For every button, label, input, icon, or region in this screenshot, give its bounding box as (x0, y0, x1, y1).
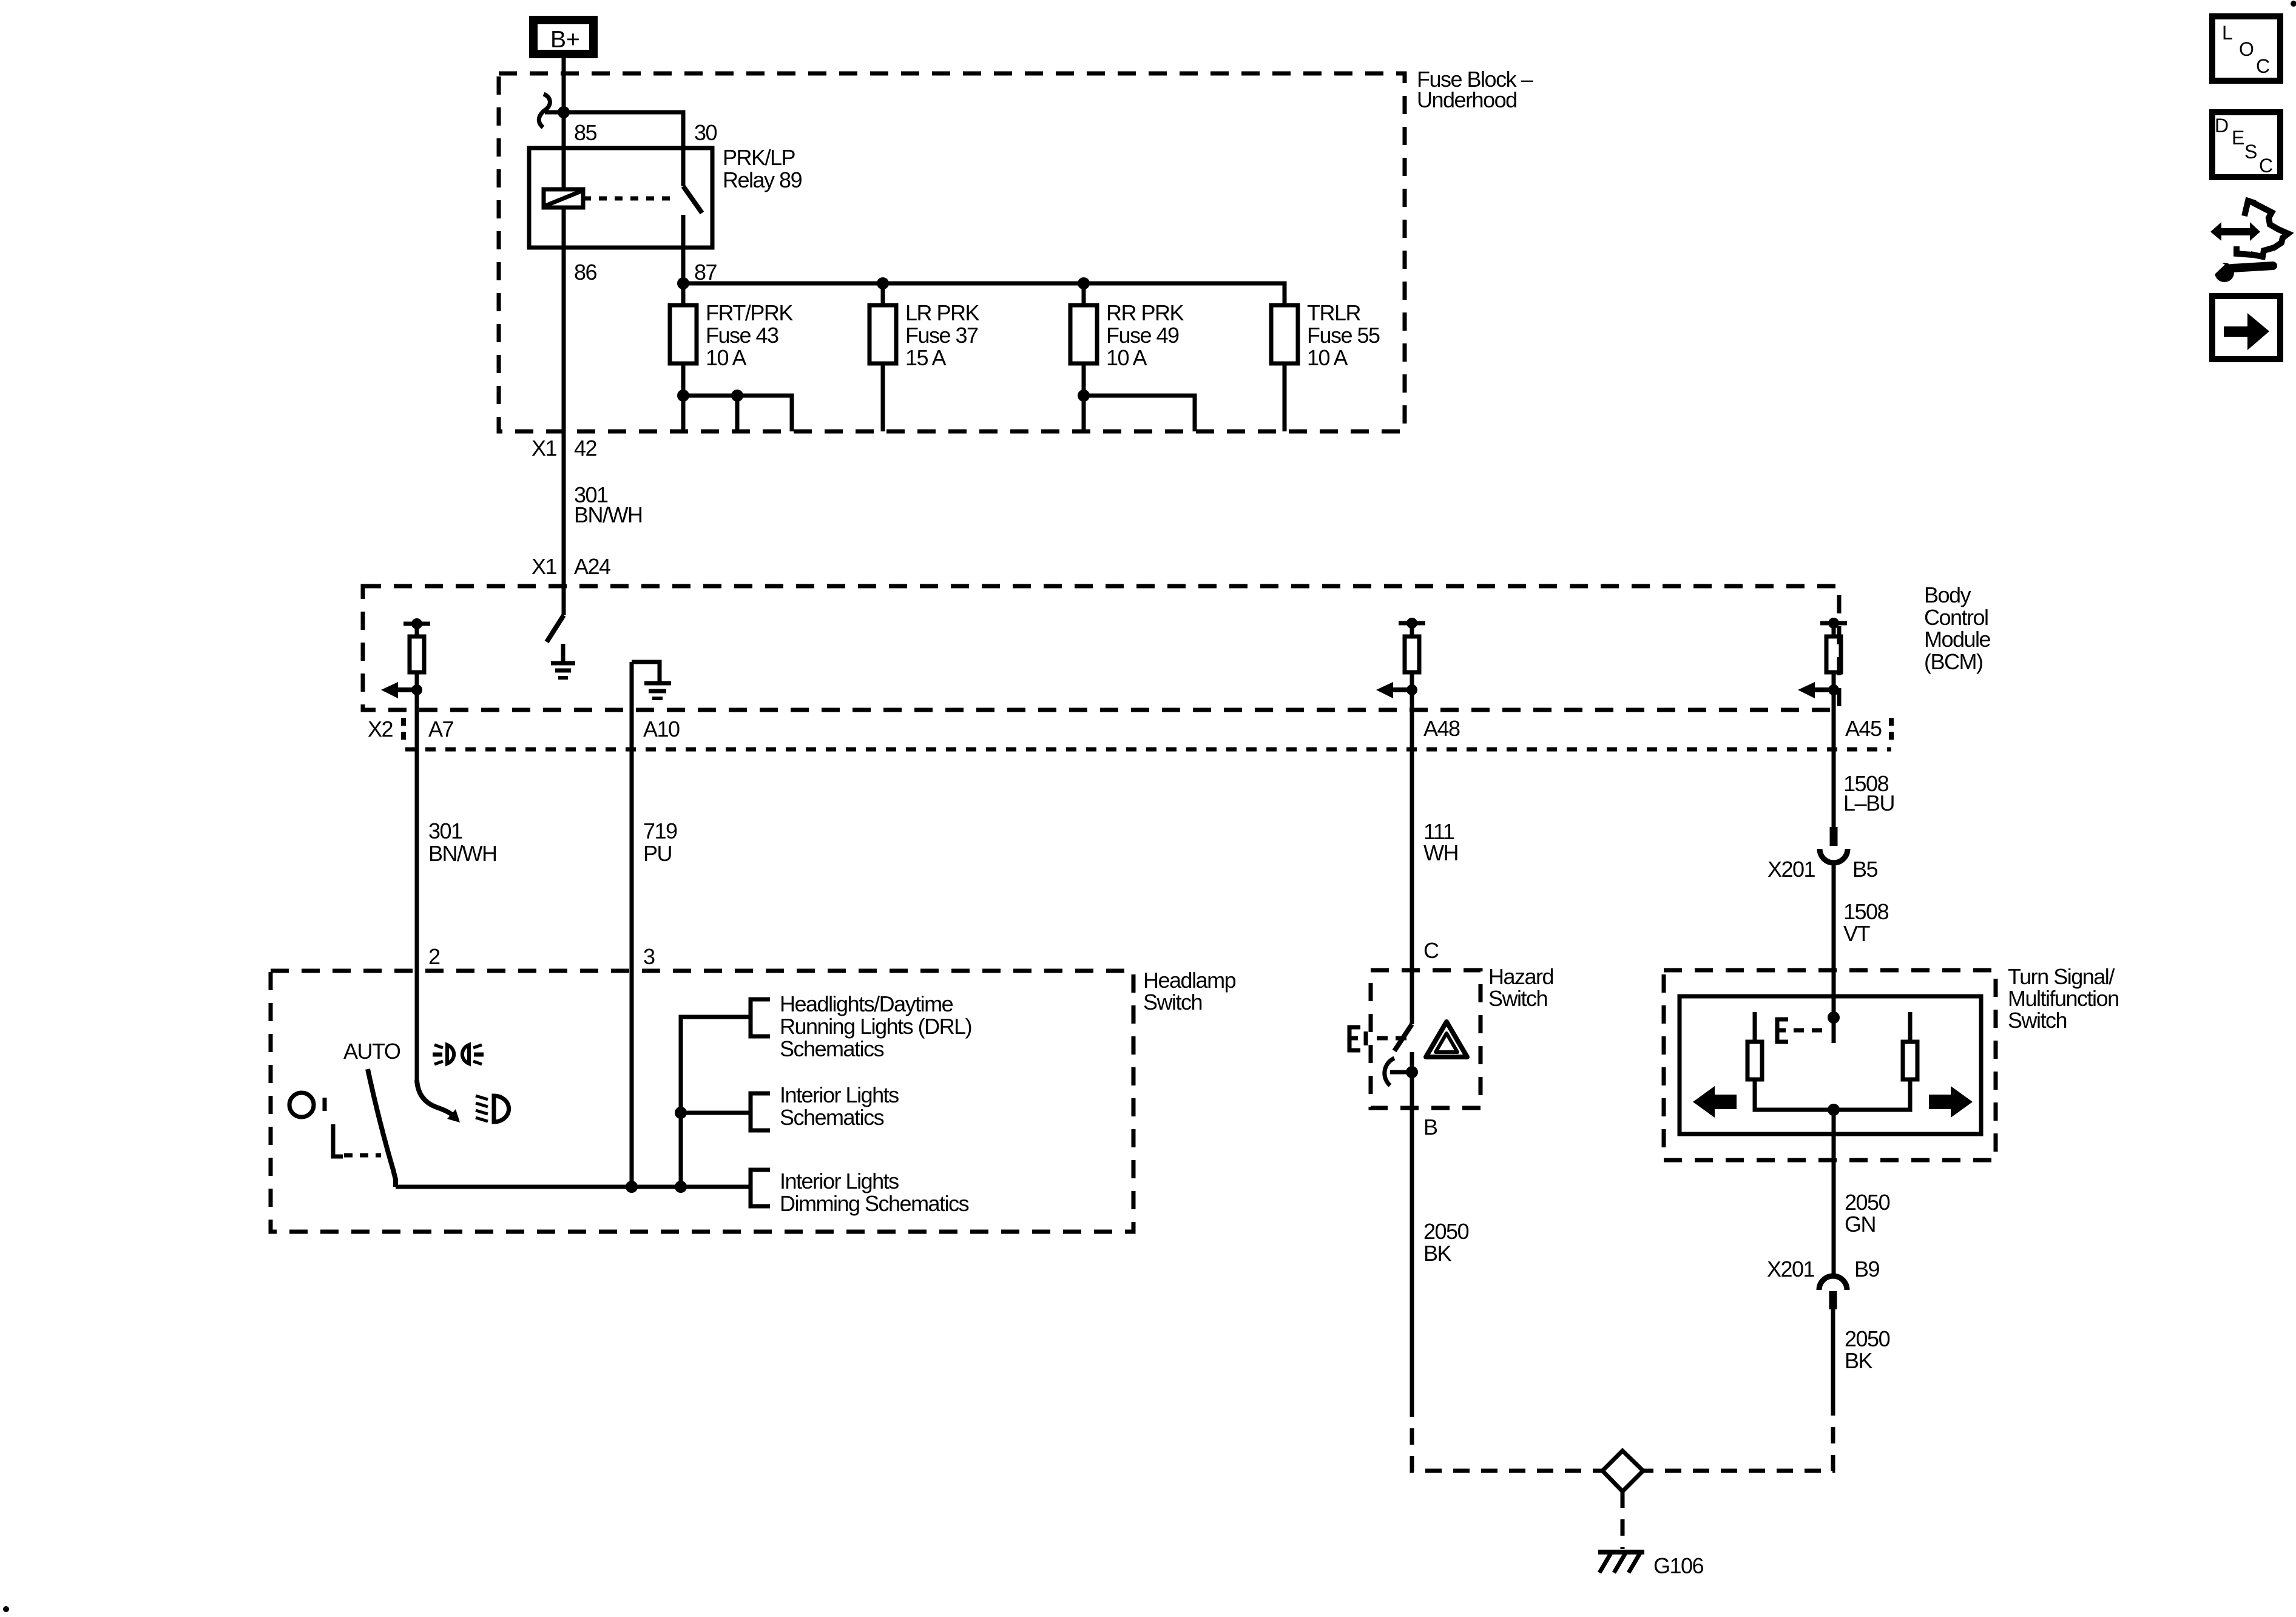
svg-text:LR PRK: LR PRK (905, 300, 980, 325)
wire hazard lower contact to pin B (1410, 1052, 1414, 1400)
svg-text:S: S (2244, 141, 2257, 163)
svg-text:719: 719 (643, 819, 677, 843)
OFF position circle (289, 1093, 314, 1117)
wire circuit 301 BN/WH BCM A7 to headlamp switch pin 2 (415, 710, 419, 1082)
label circuit 1508 L-BU (1843, 771, 1894, 815)
svg-text:Body: Body (1924, 582, 1971, 607)
left turn arrow icon (1693, 1086, 1737, 1118)
BCM internal ground at A10 (632, 662, 671, 698)
svg-text:B: B (1423, 1115, 1437, 1139)
svg-text:X201: X201 (1767, 1257, 1815, 1281)
svg-text:Interior Lights: Interior Lights (780, 1169, 899, 1193)
wire fuse 37 output (881, 363, 885, 431)
relay coil-contact dashed link (583, 197, 676, 201)
fuse block underhood enclosure (dashed) (499, 73, 1405, 431)
page corner mark top-right (2291, 1, 2296, 7)
node: fuse 49 output junction (1078, 390, 1090, 402)
park lamp icon (433, 1045, 484, 1064)
wire circuit 2050 BK below X201 (1831, 1309, 1835, 1399)
node: fuse 43 output junction (677, 390, 689, 402)
svg-text:TRLR: TRLR (1307, 300, 1361, 325)
label Body Control Module (BCM) (1924, 582, 1991, 674)
svg-text:3: 3 (643, 944, 655, 969)
label TRLR Fuse 55 10 A (1307, 300, 1380, 370)
wire circuit 301 BN/WH fuse block to BCM (562, 431, 566, 586)
wire A10 internal down (630, 662, 634, 710)
connector label X201 B5 (1768, 857, 1878, 882)
wire A7 bar to resistor (415, 624, 419, 636)
resistor BCM A7 pull-up (410, 636, 424, 672)
turn signal lever symbol E (1777, 1019, 1829, 1042)
svg-text:L: L (2222, 22, 2233, 44)
node: output at pin 3 wire (626, 1181, 638, 1193)
svg-text:X1: X1 (532, 436, 557, 461)
label circuit 301 BN/WH (574, 482, 643, 527)
node: A45 internal top (1828, 618, 1839, 629)
svg-text:Interior Lights: Interior Lights (780, 1082, 899, 1107)
svg-text:Schematics: Schematics (780, 1105, 884, 1130)
connector label X1 pin 42 (532, 436, 597, 461)
svg-text:Fuse 43: Fuse 43 (706, 323, 778, 348)
svg-text:GN: GN (1845, 1212, 1876, 1237)
svg-text:RR PRK: RR PRK (1106, 300, 1184, 325)
hazard warning triangle icon (1426, 1022, 1467, 1057)
fuse FRT/PRK Fuse 43 (670, 305, 697, 363)
BCM internal bar at A45 (1820, 621, 1847, 626)
connector label X201 B9 (1767, 1257, 1880, 1281)
svg-text:10 A: 10 A (1307, 345, 1348, 370)
wire fuse 49 branch right (1084, 396, 1195, 431)
relay contact lower stub (pin 87) (681, 215, 686, 248)
fuse RR PRK Fuse 49 (1070, 305, 1097, 363)
ground G106 (chassis) (1598, 1552, 1644, 1573)
wire circuit 719 PU BCM A10 to headlamp switch pin 3 (630, 710, 634, 971)
wire fuse 43 output (681, 363, 686, 431)
svg-text:Headlamp: Headlamp (1143, 968, 1236, 993)
in-line connector X201 B5 (pin and socket) (1820, 827, 1848, 863)
off-page bracket interior lights schematics (751, 1093, 770, 1130)
wire A7 resistor to junction (415, 672, 419, 710)
svg-text:AUTO: AUTO (343, 1039, 400, 1064)
svg-text:A24: A24 (574, 554, 610, 579)
svg-text:A7: A7 (428, 717, 454, 741)
svg-text:Multifunction: Multifunction (2008, 986, 2119, 1011)
svg-text:C: C (2259, 155, 2273, 177)
svg-text:BK: BK (1845, 1348, 1873, 1373)
svg-text:C: C (1423, 938, 1439, 963)
turn signal / multifunction switch enclosure (dashed) (1664, 970, 1996, 1160)
svg-text:15 A: 15 A (905, 345, 947, 370)
wire stub bus to fuse 37 (881, 283, 885, 305)
svg-text:Headlights/Daytime: Headlights/Daytime (780, 991, 953, 1016)
svg-text:VT: VT (1843, 921, 1871, 946)
wire (unshown harness) X201 B9 to splice (dashed) (1641, 1399, 1833, 1471)
node: A45 output junction (1828, 684, 1839, 695)
svg-text:X1: X1 (532, 554, 557, 579)
svg-text:86: 86 (574, 260, 597, 285)
icon LOC box (2209, 13, 2283, 84)
label RR PRK Fuse 49 10 A (1106, 300, 1184, 370)
svg-text:B9: B9 (1854, 1257, 1880, 1281)
resistor left turn (1747, 1042, 1762, 1079)
wire relay pin 86 down (circuit 301) (562, 208, 566, 431)
node: bus at fuse 49 (1078, 277, 1090, 289)
signal arrow at A45 (points left) (1798, 682, 1834, 698)
label LR PRK Fuse 37 15 A (905, 300, 980, 370)
resistor BCM A48 pull-up (1405, 636, 1419, 672)
BCM internal switch blade (relay driver) (547, 615, 564, 642)
svg-text:42: 42 (574, 436, 597, 461)
svg-text:Schematics: Schematics (780, 1036, 884, 1061)
wire hook to junction (1390, 1070, 1412, 1075)
battery feed terminal B+ (529, 16, 598, 58)
svg-text:2: 2 (428, 944, 440, 969)
wire fuse 55 output (1283, 363, 1287, 431)
svg-text:Dimming Schematics: Dimming Schematics (780, 1191, 969, 1216)
BCM connector separator X2 (401, 718, 406, 743)
resistor right turn (1903, 1042, 1917, 1079)
svg-text:85: 85 (574, 120, 597, 145)
label circuit 301 BN/WH (428, 819, 497, 866)
position contact L mark (333, 1124, 343, 1156)
svg-text:WH: WH (1423, 840, 1458, 865)
label Interior Lights Dimming Schematics (780, 1169, 969, 1216)
wire fuse 43 branch right (683, 396, 792, 431)
position detent tick (323, 1098, 327, 1111)
wire left resistor to common bottom (1755, 1079, 1834, 1110)
svg-text:87: 87 (694, 260, 717, 285)
svg-text:Switch: Switch (1488, 986, 1547, 1011)
svg-text:Fuse 55: Fuse 55 (1307, 323, 1380, 348)
svg-text:30: 30 (694, 120, 717, 145)
splice pack diamond (1602, 1451, 1643, 1491)
svg-text:A45: A45 (1845, 716, 1882, 741)
svg-text:2050: 2050 (1423, 1219, 1469, 1244)
wire fuse 43 branch leg (735, 396, 740, 431)
node: hazard output junction (1406, 1066, 1418, 1078)
wire junction to relay pin 30 (564, 112, 683, 148)
svg-text:PRK/LP: PRK/LP (723, 145, 795, 170)
wire right resistor to common bottom (1834, 1079, 1910, 1110)
wire headlamp switch output (396, 1185, 751, 1189)
wire fuse feed bus (683, 283, 1285, 305)
hazard switch blade (1394, 1024, 1412, 1051)
wire branch to interior lights (681, 1111, 751, 1115)
label circuit 719 PU (643, 819, 677, 866)
wire branch up to DRL output (681, 1017, 751, 1187)
svg-text:O: O (2239, 38, 2254, 60)
svg-text:Fuse 37: Fuse 37 (905, 323, 978, 348)
right turn arrow icon (1929, 1086, 1973, 1118)
label Headlamp Switch (1143, 968, 1236, 1014)
svg-text:Module: Module (1924, 627, 1991, 652)
node: A48 output junction (1406, 684, 1417, 695)
svg-text:Running Lights (DRL): Running Lights (DRL) (780, 1014, 971, 1039)
node: fuse 43 branch junction (731, 390, 743, 402)
signal arrow at A7 (points left) (381, 682, 417, 698)
svg-text:A48: A48 (1423, 716, 1460, 741)
BCM connector separator at A45 (1889, 718, 1894, 743)
svg-text:Switch: Switch (2008, 1008, 2067, 1033)
headlamp (low beam) icon (476, 1096, 509, 1122)
label Interior Lights Schematics (780, 1082, 899, 1130)
svg-text:Fuse 49: Fuse 49 (1106, 323, 1179, 348)
in-line connector X201 B9 (socket and pin) (1819, 1276, 1847, 1309)
svg-text:A10: A10 (643, 717, 680, 741)
wire B+ down to fuse block (562, 58, 566, 112)
fuse LR PRK Fuse 37 (869, 305, 896, 363)
svg-text:B+: B+ (550, 27, 580, 53)
svg-text:Underhood: Underhood (1417, 87, 1517, 112)
svg-text:(BCM): (BCM) (1924, 649, 1982, 674)
node: A7 internal top (411, 618, 422, 629)
svg-text:Relay 89: Relay 89 (723, 167, 802, 192)
svg-text:L–BU: L–BU (1843, 791, 1894, 815)
wire A48 bar to resistor (1410, 623, 1414, 636)
label PRK/LP Relay 89 (723, 145, 802, 192)
right turn contact stub (1908, 1012, 1913, 1042)
node: switch common junction (1828, 1011, 1840, 1024)
wire switch output down (1832, 1110, 1836, 1275)
svg-text:1508: 1508 (1843, 899, 1889, 924)
node: interior lights branch (675, 1107, 687, 1119)
switch common stub (1832, 1018, 1836, 1043)
node: switch output junction (1828, 1104, 1840, 1116)
label Turn Signal/ Multifunction Switch (2008, 964, 2119, 1033)
wire fusible link tap (545, 110, 564, 115)
svg-text:Control: Control (1924, 605, 1988, 630)
relay PRK/LP Relay 89 outline (529, 148, 712, 248)
BCM connector face line (fine dashed) (405, 748, 1891, 752)
svg-text:10 A: 10 A (1106, 345, 1147, 370)
label circuit 2050 GN (1845, 1190, 1890, 1237)
svg-text:E: E (2232, 127, 2244, 149)
label circuit 1508 VT (1843, 899, 1889, 946)
wire A45 bar to resistor (1832, 623, 1836, 636)
label circuit 2050 BK (1845, 1326, 1890, 1373)
icon DESC box (2209, 109, 2283, 180)
svg-text:FRT/PRK: FRT/PRK (706, 300, 793, 325)
node: bus at pin 87 (677, 277, 689, 289)
label Headlights/Daytime Running Lights (DRL) Schematics (780, 991, 971, 1061)
label circuit 2050 BK (1423, 1219, 1469, 1266)
wire A45 resistor to junction (1832, 672, 1836, 710)
wire junction to relay pin 85 (562, 112, 566, 189)
label Hazard Switch (1488, 964, 1553, 1011)
fusible link symbol (539, 94, 550, 127)
node: A7 output junction (411, 684, 422, 695)
relay switch blade (683, 186, 702, 213)
svg-text:G106: G106 (1653, 1553, 1704, 1578)
wire circuit 1508 L-BU BCM A45 to connector X201 (1832, 710, 1836, 828)
wire BCM input A24 to switch (562, 586, 566, 615)
hazard switch enclosure (dashed) (1371, 970, 1481, 1108)
selector curved arrow (417, 1080, 460, 1122)
headlamp switch wiper blade (368, 1069, 396, 1187)
wire splice to ground (dashed) (1621, 1491, 1625, 1549)
resistor BCM A45 pull-up (1826, 636, 1841, 672)
svg-text:BK: BK (1423, 1241, 1452, 1266)
relay coil (544, 189, 583, 208)
left turn contact stub (1753, 1012, 1757, 1042)
BCM internal ground (551, 644, 575, 678)
relay contact upper stub (pin 30) (681, 148, 686, 186)
node: output branch junction (675, 1181, 687, 1193)
svg-text:X201: X201 (1768, 857, 1815, 882)
svg-text:PU: PU (643, 841, 672, 866)
svg-text:D: D (2215, 115, 2229, 137)
wire relay pin 87 to fuse bus (681, 248, 686, 305)
momentary contact hook (1385, 1058, 1394, 1085)
node: A48 internal top (1406, 618, 1417, 629)
off-page bracket interior lights dimming (751, 1170, 770, 1206)
svg-text:B5: B5 (1852, 857, 1878, 882)
BCM internal bar at A7 (403, 622, 430, 626)
svg-text:10 A: 10 A (706, 345, 747, 370)
svg-text:BN/WH: BN/WH (428, 841, 497, 866)
body control module enclosure (dashed) (363, 586, 1839, 710)
svg-text:2050: 2050 (1845, 1326, 1890, 1351)
signal arrow at A48 (points left) (1376, 682, 1412, 698)
turn signal switch inner housing (1680, 996, 1981, 1134)
svg-text:C: C (2256, 55, 2270, 77)
BCM internal bar at A48 (1399, 621, 1425, 626)
svg-text:Hazard: Hazard (1488, 964, 1553, 989)
label Fuse Block - Underhood (1417, 67, 1533, 112)
mechanical linkage (dashed) (344, 1153, 381, 1158)
wire (unshown harness) hazard B to splice (dashed) (1412, 1400, 1605, 1471)
svg-text:BN/WH: BN/WH (574, 502, 643, 527)
node: B+ feed junction (558, 106, 570, 118)
wire pin 3 into switch (630, 971, 634, 1187)
headlamp switch enclosure (dashed) (271, 971, 1133, 1232)
page corner mark bottom-left (3, 1606, 9, 1612)
wire circuit 111 WH BCM A48 to hazard switch pin C (1410, 710, 1414, 1024)
off-page bracket DRL schematics (751, 999, 770, 1036)
connector label X1 pin A24 (532, 554, 610, 579)
fuse TRLR Fuse 55 (1271, 305, 1298, 363)
wire fuse 49 output (1082, 363, 1086, 431)
svg-text:2050: 2050 (1845, 1190, 1890, 1215)
icon forward arrow box (2209, 293, 2283, 362)
wire stub bus to fuse 49 (1082, 283, 1086, 305)
svg-text:Switch: Switch (1143, 990, 1202, 1014)
label FRT/PRK Fuse 43 10 A (706, 300, 793, 370)
wire A48 resistor to junction (1410, 672, 1414, 710)
hazard button symbol E (1349, 1027, 1408, 1050)
svg-text:X2: X2 (368, 717, 393, 741)
svg-text:301: 301 (428, 819, 462, 843)
wire circuit 1508 VT X201 to turn signal switch (1832, 862, 1836, 1018)
label circuit 111 WH (1423, 819, 1458, 865)
svg-text:Turn Signal/: Turn Signal/ (2008, 964, 2115, 989)
node: bus at fuse 37 (877, 277, 889, 289)
icon connector repair (arrow, shell, wrench) (2208, 201, 2288, 282)
